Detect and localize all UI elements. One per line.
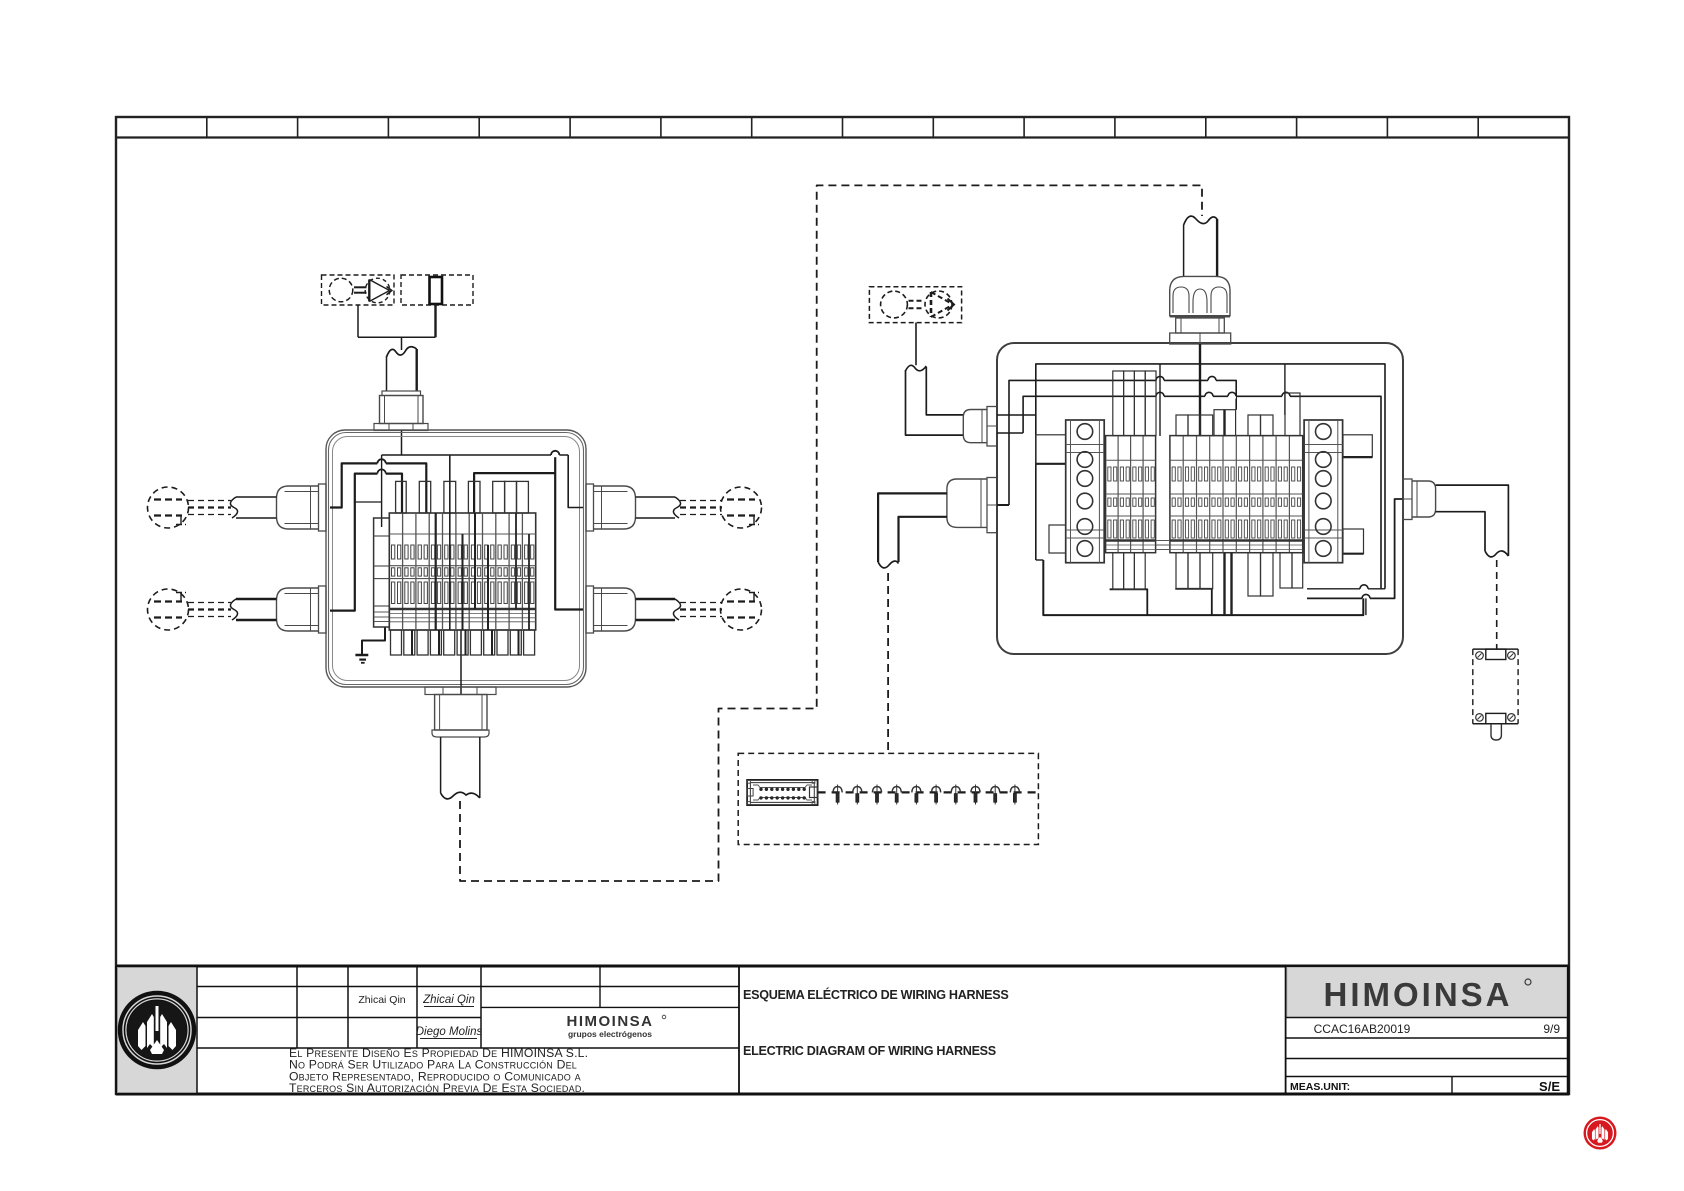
cable gland G1 top of junction box J1 — [374, 391, 428, 431]
wire harness bus H2 in J2 — [1009, 380, 1236, 505]
screw terminal strip TB2 right column — [1304, 420, 1343, 563]
wire hop bumps — [377, 451, 559, 476]
sensor S1 coil circle — [329, 278, 366, 302]
sensor S2 dashed outline box — [401, 275, 473, 305]
terminal block TB2 bottom fingers — [1113, 553, 1303, 615]
svg-text:HIMOINSA: HIMOINSA — [567, 1013, 654, 1030]
connector X1 multipin — [747, 780, 818, 805]
wire right gland B to terminal — [474, 455, 583, 610]
wire sensor S3 to cable — [915, 323, 917, 366]
title block HIMOINSA big logo cell — [1287, 968, 1567, 1018]
cable gland on J1 side — [277, 586, 327, 633]
cable tube with break symbol — [230, 599, 276, 620]
cable gland G5 dome nut top of J2 — [1170, 276, 1231, 344]
wire terminal to bottom gland — [460, 630, 462, 694]
connector plug face (dashed circle) — [721, 589, 762, 630]
ground symbol in J1 — [355, 627, 385, 663]
cable W5 L-tube lower-left — [878, 493, 947, 567]
wire harness route dashed W2 to W3 — [460, 185, 1202, 881]
svg-text:ELECTRIC DIAGRAM OF WIRING HAR: ELECTRIC DIAGRAM OF WIRING HARNESS — [743, 1044, 996, 1058]
wire left gland A to terminal — [330, 463, 426, 513]
wire sensor S1 to top cable — [357, 305, 359, 337]
cable gland on J1 side — [586, 586, 636, 633]
title block frame — [116, 966, 1569, 1094]
HIMOINSA brand small in title block — [567, 1013, 666, 1039]
wire harness bus H1 in J2 — [1036, 364, 1385, 589]
cable gland G3 upper-left of junction box J2 — [963, 407, 997, 447]
svg-text:S/E: S/E — [1539, 1079, 1560, 1094]
wire sensor S2 to top cable — [434, 304, 436, 337]
title block drawing titles — [743, 987, 1008, 1058]
connector plug face (dashed circle) — [148, 487, 189, 528]
cable W2 tube bottom — [441, 737, 480, 799]
relay K1 housing — [1473, 649, 1518, 740]
wire bundle dashed — [188, 603, 231, 617]
cable tube with break symbol — [636, 497, 681, 518]
sensor S3 dashed outline box — [869, 287, 961, 323]
sheet border frame — [116, 117, 1569, 1094]
wire bundle dashed — [188, 501, 231, 515]
connector plug face (dashed circle) — [148, 589, 189, 630]
svg-text:9/9: 9/9 — [1543, 1022, 1560, 1036]
terminal block TB1 left end bracket — [374, 518, 390, 627]
svg-text:ESQUEMA ELÉCTRICO DE WIRING HA: ESQUEMA ELÉCTRICO DE WIRING HARNESS — [743, 987, 1008, 1002]
cable gland G2 bottom of junction box J1 — [425, 687, 496, 737]
cable W1 tube — [387, 349, 417, 391]
cable gland G6 right side of J2 — [1403, 479, 1436, 520]
wire right gland G6 stub — [1307, 499, 1403, 598]
splice terminals row — [833, 785, 1020, 805]
harness detail dashed enclosure — [738, 753, 1038, 844]
wire hop bumps in J2 — [1156, 376, 1370, 600]
wire dashed splice bus — [818, 791, 1039, 793]
svg-text:MEAS.UNIT:: MEAS.UNIT: — [1290, 1081, 1350, 1093]
wire harness bus H3 in J2 — [1023, 396, 1381, 589]
cable tube with break symbol — [636, 599, 681, 620]
wire bundle dashed — [680, 501, 722, 515]
svg-text:HIMOINSA: HIMOINSA — [1324, 976, 1513, 1013]
wire bus top of J1 — [382, 454, 569, 456]
sensor S2 element — [430, 277, 443, 304]
wire verticals from buses to TB2 — [1160, 344, 1366, 615]
cable W6 L-tube right side — [1436, 485, 1509, 557]
wire vertical drop in J1 — [355, 455, 382, 527]
sensor S1 valve triangle — [365, 278, 392, 303]
title block names and signatures — [358, 994, 482, 1039]
terminal block TB2 central body — [1106, 436, 1303, 553]
cable gland G4 lower-left of junction box J2 — [947, 478, 997, 533]
terminal block TB1 body — [389, 513, 535, 630]
wire right gland A to bus — [568, 455, 583, 508]
sensor S3 valve triangle — [925, 291, 954, 318]
junction box J1 enclosure — [326, 430, 586, 687]
terminal block TB1 bottom fingers — [391, 630, 535, 655]
junction box J2 enclosure — [997, 343, 1403, 654]
connector plug face (dashed circle) — [721, 487, 762, 528]
cable W3 tube top of J2 — [1184, 216, 1218, 276]
terminal block TB1 clamp slots — [392, 545, 534, 604]
cable tube with break symbol — [230, 497, 276, 518]
svg-text:Terceros Sin Autorización Prev: Terceros Sin Autorización Previa De Esta… — [289, 1081, 585, 1095]
wire harness bottom staircase in J2 — [1036, 560, 1364, 615]
title block grid lines — [197, 966, 1286, 1094]
wire left gland B to terminal — [330, 474, 402, 611]
cable gland on J1 side — [586, 484, 636, 531]
wire gland G5 into J2 — [1199, 344, 1201, 363]
svg-text:Zhicai Qin: Zhicai Qin — [358, 994, 405, 1006]
screw terminal strip TB2 left column — [1066, 420, 1105, 563]
wire dashed from right box lower gland — [887, 573, 889, 753]
svg-text:Zhicai Qin: Zhicai Qin — [422, 994, 475, 1006]
title block document number cells — [1286, 1018, 1568, 1095]
wire stubs from glands G3 G4 into buses — [997, 415, 1036, 505]
red HIMOINSA stamp logo — [1584, 1117, 1617, 1150]
sensor S1 dashed outline box — [322, 275, 395, 305]
wire junction bus above top cable — [358, 337, 436, 350]
title block logo cell — [118, 968, 198, 1093]
wires through terminal block TB1 — [412, 455, 529, 655]
jumper boxes beside screw columns — [1036, 435, 1373, 554]
sheet top ruler zone ticks — [207, 117, 1478, 138]
HIMOINSA round logo emblem — [120, 993, 194, 1067]
sensor S3 coil circle — [881, 291, 922, 318]
wire gland G1 into box — [401, 431, 403, 456]
wire dashed W6 to relay K1 — [1496, 560, 1498, 649]
wire bundle dashed — [680, 603, 722, 617]
svg-text:grupos electrógenos: grupos electrógenos — [568, 1029, 652, 1039]
svg-text:CCAC16AB20019: CCAC16AB20019 — [1314, 1022, 1411, 1036]
cable W1 break symbol — [387, 347, 417, 357]
terminal block TB1 top jumper fingers — [396, 481, 529, 513]
title block legal text — [289, 1046, 588, 1095]
terminal block TB2 top fingers — [1113, 371, 1300, 436]
cable gland on J1 side — [277, 484, 327, 531]
svg-text:Diego Molins: Diego Molins — [416, 1026, 483, 1038]
terminal block TB2 clamp slots — [1108, 467, 1301, 538]
cable W4 break and L-tube — [906, 365, 964, 435]
